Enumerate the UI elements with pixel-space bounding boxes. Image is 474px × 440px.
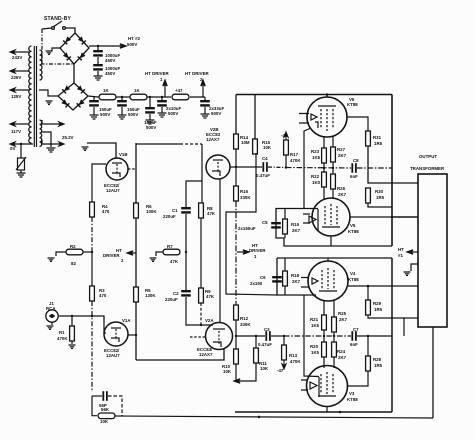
primary tap 243V bbox=[10, 50, 29, 54]
svg-text:R20: R20 bbox=[310, 344, 319, 349]
wire R16 down to R12 bbox=[235, 201, 237, 305]
svg-text:330K: 330K bbox=[240, 322, 251, 327]
svg-text:2K7: 2K7 bbox=[292, 279, 301, 284]
svg-text:12AU7: 12AU7 bbox=[106, 188, 120, 193]
svg-text:10K: 10K bbox=[223, 369, 232, 374]
svg-text:C2: C2 bbox=[173, 291, 179, 296]
V1B internals bbox=[112, 163, 122, 177]
svg-text:V5: V5 bbox=[350, 223, 356, 228]
capacitor 150uF 500V second bbox=[121, 96, 123, 98]
wire R2 right to R4 line bbox=[83, 251, 92, 253]
svg-text:R28: R28 bbox=[373, 357, 382, 362]
svg-text:1R5: 1R5 bbox=[376, 195, 385, 200]
resistor R30 1R5 bbox=[366, 188, 371, 203]
svg-text:470K: 470K bbox=[57, 336, 68, 341]
svg-text:500V: 500V bbox=[146, 125, 156, 130]
svg-text:2x150uF: 2x150uF bbox=[238, 226, 256, 231]
BR1 diodes bbox=[78, 36, 86, 44]
svg-text:R29: R29 bbox=[373, 301, 382, 306]
capacitor C2 220uF bbox=[185, 252, 187, 290]
filament output arrow upper bbox=[42, 120, 64, 126]
V6 anode stub to rail bbox=[326, 95, 328, 98]
svg-text:130K: 130K bbox=[145, 293, 156, 298]
svg-text:R18: R18 bbox=[291, 273, 300, 278]
R7 left lead to ground bbox=[156, 252, 163, 256]
svg-text:R22: R22 bbox=[311, 174, 320, 179]
svg-text:10M: 10M bbox=[241, 140, 250, 145]
svg-text:R26: R26 bbox=[337, 186, 346, 191]
V1A internals bbox=[111, 328, 121, 342]
svg-text:6nF: 6nF bbox=[350, 342, 358, 347]
ground filament center tap bbox=[47, 148, 56, 152]
svg-text:STAND-BY: STAND-BY bbox=[44, 16, 72, 22]
resistor R9 47K bbox=[199, 288, 204, 303]
svg-text:2K7: 2K7 bbox=[292, 228, 301, 233]
wire R2 left to ground bbox=[56, 252, 66, 256]
tube V2A envelope bbox=[206, 323, 233, 350]
svg-text:KT88: KT88 bbox=[348, 229, 359, 234]
capacitor 100uF 500V bbox=[149, 96, 151, 98]
V2A grid dash bbox=[190, 336, 205, 338]
input wire J1 to V1A bbox=[58, 316, 104, 322]
grid bias line lower bbox=[284, 335, 351, 337]
wire HT2 node down bbox=[97, 46, 99, 50]
resistor R10 10K bbox=[235, 336, 237, 349]
HT #2 output wire and arrow bbox=[89, 44, 126, 48]
V6 grid leads down bbox=[323, 136, 325, 148]
svg-text:1K: 1K bbox=[134, 88, 140, 93]
BR1 AC stub left bbox=[52, 48, 60, 51]
svg-text:500V: 500V bbox=[168, 111, 178, 116]
svg-text:R21: R21 bbox=[310, 317, 319, 322]
capacitor C7 6nF bbox=[351, 331, 356, 341]
stand-by switch S1 bbox=[42, 21, 75, 33]
resistor R28 1R5 bbox=[367, 336, 369, 356]
V5 anode lead right bbox=[350, 216, 392, 218]
V1B grid wire to R4 bbox=[92, 164, 106, 203]
V1B lead to R6 line bbox=[128, 168, 136, 170]
svg-text:450V: 450V bbox=[105, 58, 115, 63]
grid bias line upper bbox=[286, 167, 351, 170]
wire C8 to rail right bbox=[357, 167, 392, 169]
V4 grid leads down bbox=[323, 301, 325, 315]
resistor R20 1K5 bbox=[323, 330, 325, 342]
svg-text:R16: R16 bbox=[240, 189, 249, 194]
resistor R24 2K7 bbox=[333, 332, 335, 342]
svg-text:#1: #1 bbox=[398, 253, 403, 258]
wire cap to ground bbox=[97, 71, 99, 76]
svg-text:12AU7: 12AU7 bbox=[106, 353, 120, 358]
V2B grid drop to C1 bbox=[186, 144, 202, 208]
svg-text:243V: 243V bbox=[12, 55, 22, 60]
capacitor 2x33uF 500V rail end bbox=[204, 97, 206, 100]
svg-text:1K: 1K bbox=[103, 88, 109, 93]
svg-text:C8: C8 bbox=[353, 158, 359, 163]
V2B anode line to C4 bbox=[230, 166, 262, 168]
wire R15 tail down bbox=[226, 153, 277, 295]
tube V4 KT88 envelope bbox=[308, 261, 348, 301]
svg-text:V1B: V1B bbox=[119, 152, 128, 157]
input jack J1 RCA bbox=[46, 310, 58, 322]
transformer T1 core bbox=[34, 46, 36, 147]
svg-text:C3: C3 bbox=[264, 327, 270, 332]
svg-text:TRANSFORMER: TRANSFORMER bbox=[410, 166, 445, 171]
svg-text:R17: R17 bbox=[290, 152, 299, 157]
feedback resistor 10K bbox=[92, 396, 97, 416]
resistor 1K first bbox=[99, 94, 116, 100]
svg-text:R13: R13 bbox=[289, 353, 298, 358]
svg-text:R27: R27 bbox=[337, 147, 346, 152]
V2A anode line to C3 bbox=[235, 335, 265, 337]
svg-text:2K7: 2K7 bbox=[338, 355, 347, 360]
svg-text:47K: 47K bbox=[207, 211, 216, 216]
svg-text:1K5: 1K5 bbox=[311, 350, 320, 355]
V3 grid leads bbox=[323, 357, 325, 368]
V5 cathode stub bbox=[330, 236, 332, 246]
svg-text:R7: R7 bbox=[167, 244, 173, 249]
cathode line lower pair bbox=[277, 257, 392, 259]
V5 internals bbox=[303, 204, 340, 230]
filament center tap wire bbox=[42, 132, 51, 147]
svg-text:12AX7: 12AX7 bbox=[206, 137, 220, 142]
main HT rail bbox=[236, 94, 392, 96]
V2A internals bbox=[213, 329, 225, 347]
tube V1A envelope bbox=[104, 322, 128, 346]
svg-text:220uF: 220uF bbox=[163, 214, 176, 219]
wire R31 to transformer tap bbox=[368, 146, 418, 183]
wire R6 to R5 with HT DRIVER 2 node bbox=[135, 218, 137, 287]
HT DRIVER 2 takeoff arrow bbox=[201, 80, 205, 97]
cathode return wire with arrow bbox=[236, 363, 256, 381]
svg-text:0.47uF: 0.47uF bbox=[256, 173, 270, 178]
HT DRIVER 2 feed arrow bbox=[127, 251, 136, 255]
wire C7 to lower rail bbox=[357, 335, 392, 337]
V2B internals bbox=[212, 160, 223, 176]
capacitor 2x10uF 500V bbox=[161, 96, 163, 98]
svg-text:47K: 47K bbox=[170, 259, 179, 264]
svg-text:0V: 0V bbox=[10, 146, 15, 151]
svg-text:R1: R1 bbox=[59, 330, 65, 335]
bias feed arrow above R17 bbox=[284, 132, 288, 140]
svg-text:1R5: 1R5 bbox=[374, 307, 383, 312]
coupling wire to V2A cathode bbox=[136, 348, 224, 360]
HT #1 arrow into transformer bbox=[407, 250, 418, 254]
capacitor C4 0.47uF bbox=[262, 162, 267, 172]
svg-text:500V: 500V bbox=[211, 111, 221, 116]
feedback capacitor 56P bbox=[92, 395, 102, 397]
feedback line from output bbox=[115, 416, 433, 418]
svg-text:RCA: RCA bbox=[46, 306, 56, 311]
ground reservoir caps bbox=[94, 76, 103, 80]
svg-text:1R5: 1R5 bbox=[374, 363, 383, 368]
transformer T1 filament secondary winding 25.2V bbox=[40, 120, 42, 146]
V4 cathode stub bbox=[327, 258, 329, 261]
svg-text:C4: C4 bbox=[262, 156, 268, 161]
cathode network box upper bbox=[276, 209, 392, 247]
svg-text:R19: R19 bbox=[291, 222, 300, 227]
resistor +47 bbox=[172, 94, 189, 100]
svg-text:470K: 470K bbox=[290, 359, 301, 364]
svg-text:500V: 500V bbox=[128, 112, 138, 117]
svg-text:R12: R12 bbox=[240, 316, 249, 321]
wire V1B anode top rail bbox=[87, 143, 116, 158]
resistor R25 2K7 bbox=[332, 317, 337, 332]
V4 internals bbox=[301, 268, 337, 291]
BR2 diodes bbox=[77, 85, 85, 93]
resistor R8 47K bbox=[201, 181, 203, 203]
svg-text:-47: -47 bbox=[277, 368, 284, 373]
svg-text:OUTPUT: OUTPUT bbox=[419, 154, 437, 159]
HT rail right side down bbox=[391, 95, 393, 247]
svg-text:V2A: V2A bbox=[205, 318, 214, 323]
ground bus line bbox=[235, 411, 392, 413]
svg-text:10K: 10K bbox=[260, 366, 269, 371]
svg-text:V1A: V1A bbox=[122, 318, 131, 323]
ground below thermistor bbox=[17, 173, 26, 177]
svg-text:6nF: 6nF bbox=[350, 174, 358, 179]
resistor R19 2K7 bbox=[284, 208, 286, 219]
svg-text:KT88: KT88 bbox=[347, 397, 358, 402]
rail drop to R14 bbox=[235, 95, 237, 135]
ground stub at V1B anode wire bbox=[82, 147, 89, 150]
svg-text:C7: C7 bbox=[353, 327, 359, 332]
resistor R14 10M bbox=[234, 134, 239, 149]
resistor R7 47K bbox=[163, 249, 180, 255]
transformer T1 HT secondary winding bbox=[40, 50, 43, 80]
svg-text:117V: 117V bbox=[11, 129, 21, 134]
wires C2 and R9 join to V2A grid bbox=[186, 297, 213, 325]
wire R5 down to coupling line bbox=[135, 302, 137, 360]
lower rail right side bbox=[391, 258, 393, 412]
svg-text:56K: 56K bbox=[101, 407, 110, 412]
wire R12 to V2A anode line bbox=[235, 320, 237, 336]
svg-text:2K7: 2K7 bbox=[338, 153, 347, 158]
svg-text:HT: HT bbox=[398, 247, 404, 252]
resistor R26 2K7 bbox=[332, 162, 334, 174]
svg-text:C1: C1 bbox=[172, 208, 178, 213]
resistor 1K second bbox=[130, 94, 147, 100]
svg-text:DRIVER: DRIVER bbox=[249, 248, 266, 253]
BR2 left terminal mark bbox=[46, 101, 53, 104]
bridge rectifier BR1 bbox=[60, 33, 89, 64]
svg-text:12AX7: 12AX7 bbox=[199, 352, 213, 357]
svg-text:82: 82 bbox=[71, 261, 76, 266]
svg-text:HT DRIVER: HT DRIVER bbox=[185, 71, 209, 76]
bridge rectifier BR2 bbox=[58, 83, 88, 110]
junction dot 0V line bbox=[20, 143, 22, 145]
svg-text:500V: 500V bbox=[100, 112, 110, 117]
resistor R15 10K bbox=[253, 139, 258, 154]
svg-text:1K5: 1K5 bbox=[311, 323, 320, 328]
svg-text:R25: R25 bbox=[338, 311, 347, 316]
svg-text:10K: 10K bbox=[100, 419, 109, 424]
svg-text:HT DRIVER: HT DRIVER bbox=[145, 71, 169, 76]
svg-text:47K: 47K bbox=[206, 294, 215, 299]
capacitor C8 6nF bbox=[351, 163, 356, 173]
wire top rail to V2B grid bbox=[136, 143, 180, 145]
wire R14 to anode line bbox=[235, 149, 237, 167]
wire R8 down to R9 bbox=[200, 218, 202, 288]
resistor R27 2K7 bbox=[331, 147, 336, 162]
secondary drop from box bottom bbox=[432, 327, 434, 418]
capacitor C 1000uF 450V upper bbox=[93, 50, 103, 57]
resistor R29 1R5 bbox=[367, 286, 369, 300]
svg-text:226V: 226V bbox=[11, 75, 21, 80]
cathode network box lower bbox=[277, 258, 316, 295]
V6 internals bbox=[299, 106, 336, 131]
svg-text:HT #2: HT #2 bbox=[128, 36, 141, 41]
svg-text:V3: V3 bbox=[349, 391, 355, 396]
svg-text:C5: C5 bbox=[262, 220, 268, 225]
svg-text:R30: R30 bbox=[375, 189, 384, 194]
BR1 left terminal mark bbox=[46, 51, 53, 54]
BR2 AC stub left bbox=[39, 90, 58, 96]
svg-text:100K: 100K bbox=[146, 209, 157, 214]
svg-text:-47: -47 bbox=[281, 133, 288, 138]
svg-text:450V: 450V bbox=[105, 71, 115, 76]
svg-text:470: 470 bbox=[99, 293, 107, 298]
svg-text:KT88: KT88 bbox=[347, 102, 358, 107]
resistor R1 470K bbox=[71, 316, 73, 326]
transformer ground tap bbox=[411, 264, 418, 271]
V1A grid lead bbox=[104, 322, 106, 333]
capacitor C6 2x150uF bbox=[272, 276, 282, 283]
svg-text:2K7: 2K7 bbox=[339, 317, 348, 322]
V3 cathode to bottom line bbox=[326, 407, 328, 412]
filament output arrow lower bbox=[42, 140, 64, 146]
svg-text:470: 470 bbox=[102, 209, 110, 214]
svg-text:470K: 470K bbox=[290, 158, 301, 163]
svg-text:330K: 330K bbox=[240, 195, 251, 200]
wire C3 to lower grid line bbox=[271, 335, 284, 337]
rail drop to R15 bbox=[254, 95, 256, 140]
resistor R11 10K bbox=[255, 336, 257, 348]
output transformer box bbox=[418, 174, 447, 327]
wire R3 down through input node to feedback bbox=[91, 301, 93, 392]
V3 internals bbox=[301, 372, 336, 397]
tube V5 KT88 envelope bbox=[312, 198, 350, 236]
wire switch to transformer bbox=[42, 29, 73, 64]
capacitor C3 0.47uF bbox=[265, 331, 270, 341]
HT DRIVER 1 takeoff arrow bbox=[163, 80, 167, 97]
resistor R2 82 bbox=[66, 249, 83, 255]
resistor R12 330K bbox=[234, 305, 239, 320]
svg-text:220uF: 220uF bbox=[165, 297, 178, 302]
svg-text:1K5: 1K5 bbox=[312, 155, 321, 160]
resistor R3 470 bbox=[91, 252, 93, 286]
resistor R16 330K bbox=[234, 186, 239, 201]
wire R28 to V3 anode bbox=[348, 371, 368, 386]
resistor R6 100K bbox=[134, 203, 139, 218]
tube V1B envelope bbox=[106, 158, 128, 180]
svg-text:R23: R23 bbox=[311, 149, 320, 154]
svg-text:R2: R2 bbox=[70, 244, 76, 249]
svg-text:500V: 500V bbox=[127, 42, 137, 47]
V1A anode lead to R5 line bbox=[128, 334, 136, 336]
svg-text:+47: +47 bbox=[175, 88, 183, 93]
svg-text:R24: R24 bbox=[337, 349, 346, 354]
wire R4 down to R2 node bbox=[91, 217, 93, 252]
driver supply rail bbox=[88, 96, 171, 97]
primary tap 226V bbox=[10, 69, 29, 73]
resistor R18 2K7 bbox=[284, 258, 286, 272]
HT DRIVER 1 feed arrow bbox=[237, 250, 249, 254]
wire R29 bottom to lower rail bbox=[368, 315, 404, 336]
svg-text:R31: R31 bbox=[373, 135, 382, 140]
svg-text:KT88: KT88 bbox=[348, 277, 359, 282]
wire R6 top feed bbox=[135, 143, 137, 204]
junction dot HT2 node bbox=[97, 45, 99, 47]
thermistor TH1 on 0V line bbox=[16, 144, 26, 173]
V6 cathode drop to V5 entry bbox=[304, 128, 311, 208]
svg-text:25.2V: 25.2V bbox=[62, 135, 74, 140]
primary tap 125V bbox=[10, 88, 29, 92]
transformer T1 primary winding bbox=[29, 46, 32, 143]
J1 ground bbox=[51, 322, 53, 325]
rail to transformer primary CT bbox=[392, 216, 418, 218]
V4 anode lead to transformer bbox=[348, 285, 418, 287]
primary tap 0V bbox=[10, 142, 33, 146]
tube V3 KT88 envelope bbox=[307, 366, 348, 407]
wire R17 to grid line bbox=[285, 155, 287, 168]
capacitor C 1000uF 450V lower bbox=[93, 64, 103, 71]
svg-text:C6: C6 bbox=[260, 275, 266, 280]
svg-text:2K7: 2K7 bbox=[338, 192, 347, 197]
bias feed arrow below R13 bbox=[282, 360, 286, 369]
svg-text:10K: 10K bbox=[263, 145, 272, 150]
wire C1 down to R7 bbox=[185, 214, 187, 252]
resistor R21 1K5 bbox=[322, 315, 327, 330]
svg-text:125V: 125V bbox=[11, 94, 21, 99]
tube V2B envelope bbox=[206, 155, 230, 179]
capacitor C5 2x150uF bbox=[271, 222, 281, 229]
primary tap 117V bbox=[10, 122, 29, 126]
svg-text:DRIVER: DRIVER bbox=[103, 253, 120, 258]
wire between reservoir caps bbox=[97, 57, 99, 64]
tube V6 KT88 envelope bbox=[307, 97, 347, 137]
resistor R31 1R5 bbox=[347, 117, 368, 131]
resistor R13 470K bbox=[283, 336, 285, 345]
svg-text:1K0: 1K0 bbox=[312, 180, 321, 185]
svg-text:V4: V4 bbox=[350, 271, 356, 276]
resistor R23 1K5 bbox=[322, 148, 327, 163]
svg-text:2x150: 2x150 bbox=[250, 281, 263, 286]
wire BR1 to BR2 bbox=[73, 64, 75, 83]
V5 grid leads bbox=[323, 187, 325, 199]
resistor R4 470 bbox=[90, 202, 95, 217]
wire C4 to grid line bbox=[268, 166, 286, 169]
wire R30 bottom to HT rail corner bbox=[368, 203, 392, 207]
capacitor 150uF 500V first bbox=[93, 97, 95, 100]
stub to transformer lower tap bbox=[404, 317, 418, 319]
svg-text:0.47uF: 0.47uF bbox=[258, 342, 272, 347]
cathode feed drop to V3 entry bbox=[304, 295, 319, 377]
capacitor C1 220uF bbox=[181, 207, 191, 214]
V2B cathode line down to V2A bbox=[219, 179, 221, 323]
resistor R17 470K bbox=[284, 140, 289, 155]
resistor R22 1K0 bbox=[323, 163, 325, 172]
resistor R5 130K bbox=[134, 287, 139, 302]
svg-text:1R5: 1R5 bbox=[374, 141, 383, 146]
